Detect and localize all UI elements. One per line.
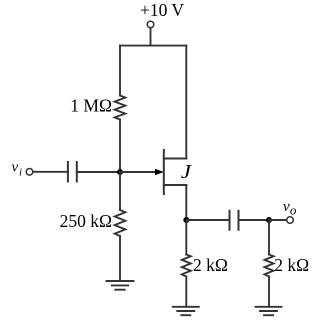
wire from output node down to right 2 kΩ — [268, 220, 270, 255]
wire from source node right to output capacitor — [186, 219, 229, 221]
svg-text:250 kΩ: 250 kΩ — [60, 211, 112, 231]
svg-text:J: J — [181, 162, 193, 183]
svg-text:vi: vi — [12, 160, 23, 179]
wire from right 2 kΩ down to ground — [268, 277, 270, 307]
resistor 1 MΩ — [115, 96, 126, 120]
wire from 250 kΩ top: gate node down — [119, 172, 121, 210]
wire from input capacitor to gate node — [77, 171, 120, 173]
wire source down to source node — [185, 185, 187, 220]
output terminal v_o — [287, 217, 294, 224]
input terminal v_i — [26, 169, 33, 176]
resistor 2 kΩ (load) — [265, 255, 274, 277]
resistor 250 kΩ — [115, 210, 126, 236]
capacitor C2 (output coupling) — [230, 211, 239, 230]
wire from top rail down to 1 MΩ resistor — [119, 46, 121, 96]
node gate junction — [117, 169, 123, 175]
wire gate lead with arrow into JFET — [120, 171, 156, 173]
resistor 2 kΩ (source) — [182, 255, 191, 277]
wire from source node down to left 2 kΩ — [185, 220, 187, 255]
wire from output node to v_o terminal — [269, 219, 287, 221]
wire from v_i terminal to input capacitor — [33, 171, 68, 173]
wire from 250 kΩ down to ground — [119, 236, 121, 281]
node source junction — [183, 217, 189, 223]
wire drain to top rail — [185, 46, 187, 159]
wire from +10 V terminal down to top rail — [150, 28, 152, 46]
capacitor C1 (input coupling) — [68, 162, 77, 182]
svg-text:+10 V: +10 V — [140, 0, 184, 20]
wire from 1 MΩ down to gate node — [119, 120, 121, 173]
transistor J source lead — [164, 184, 187, 186]
svg-text:2 kΩ: 2 kΩ — [274, 255, 309, 275]
svg-text:1 MΩ: 1 MΩ — [70, 96, 112, 116]
ground (below load 2 kΩ) — [256, 307, 282, 315]
wire from left 2 kΩ down to ground — [185, 277, 187, 307]
wire top rail — [120, 45, 186, 47]
wire from output capacitor to output node — [239, 219, 270, 221]
transistor J (JFET) channel bar — [163, 150, 165, 194]
ground (below 250 kΩ) — [107, 281, 134, 290]
transistor J drain lead — [164, 158, 187, 160]
+10 V supply terminal — [147, 21, 154, 28]
svg-text:2 kΩ: 2 kΩ — [193, 255, 228, 275]
node output junction — [266, 217, 272, 223]
svg-text:vo: vo — [283, 199, 297, 218]
ground (below source 2 kΩ) — [173, 307, 199, 315]
